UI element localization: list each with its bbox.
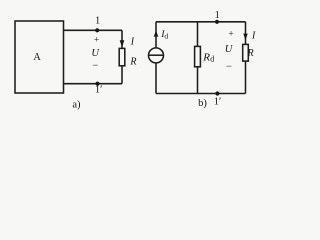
svg-text:b): b) xyxy=(198,98,207,109)
svg-text:1: 1 xyxy=(95,15,100,26)
svg-text:1′: 1′ xyxy=(214,97,222,108)
current source bar xyxy=(149,54,164,56)
svg-text:R: R xyxy=(246,48,253,59)
wire middle upper (b) xyxy=(197,22,199,47)
svg-text:+: + xyxy=(228,29,233,39)
node 1 (b) xyxy=(215,20,219,24)
svg-text:A: A xyxy=(33,52,41,63)
wire bottom (a) xyxy=(64,83,123,85)
svg-text:R: R xyxy=(129,56,136,67)
resistor R (a) xyxy=(119,48,125,65)
wire left upper (b) xyxy=(155,22,157,48)
svg-text:R: R xyxy=(202,51,210,63)
svg-text:d: d xyxy=(164,32,168,41)
wire bottom (b) xyxy=(156,93,246,95)
node 1' (a) xyxy=(95,82,99,86)
current arrow I (a) xyxy=(120,40,125,47)
network box A xyxy=(15,21,64,93)
svg-text:1′: 1′ xyxy=(95,84,103,95)
svg-text:I: I xyxy=(251,31,256,42)
svg-text:−: − xyxy=(226,62,232,73)
wire branch upper (a) xyxy=(121,30,123,48)
wire middle lower (b) xyxy=(197,67,199,94)
svg-text:I: I xyxy=(130,36,135,47)
resistor R (b) xyxy=(243,44,249,61)
current source Id circle xyxy=(149,48,164,63)
wire branch lower (a) xyxy=(121,66,123,84)
current arrow I (b) xyxy=(243,34,247,41)
resistor Rd (b) xyxy=(195,46,201,66)
svg-text:d: d xyxy=(210,55,214,64)
node 1' (b) xyxy=(215,91,219,95)
wire right upper (b) xyxy=(245,22,247,45)
svg-text:a): a) xyxy=(72,99,81,110)
wire right lower (b) xyxy=(245,61,247,93)
svg-text:1: 1 xyxy=(215,10,220,21)
wire top (b) xyxy=(156,21,246,23)
wire left lower (b) xyxy=(155,63,157,94)
current arrow Id (b) xyxy=(154,30,158,36)
svg-text:−: − xyxy=(92,61,98,72)
wire top (a) xyxy=(64,29,123,31)
svg-text:+: + xyxy=(94,35,99,45)
node 1 (a) xyxy=(95,28,99,32)
